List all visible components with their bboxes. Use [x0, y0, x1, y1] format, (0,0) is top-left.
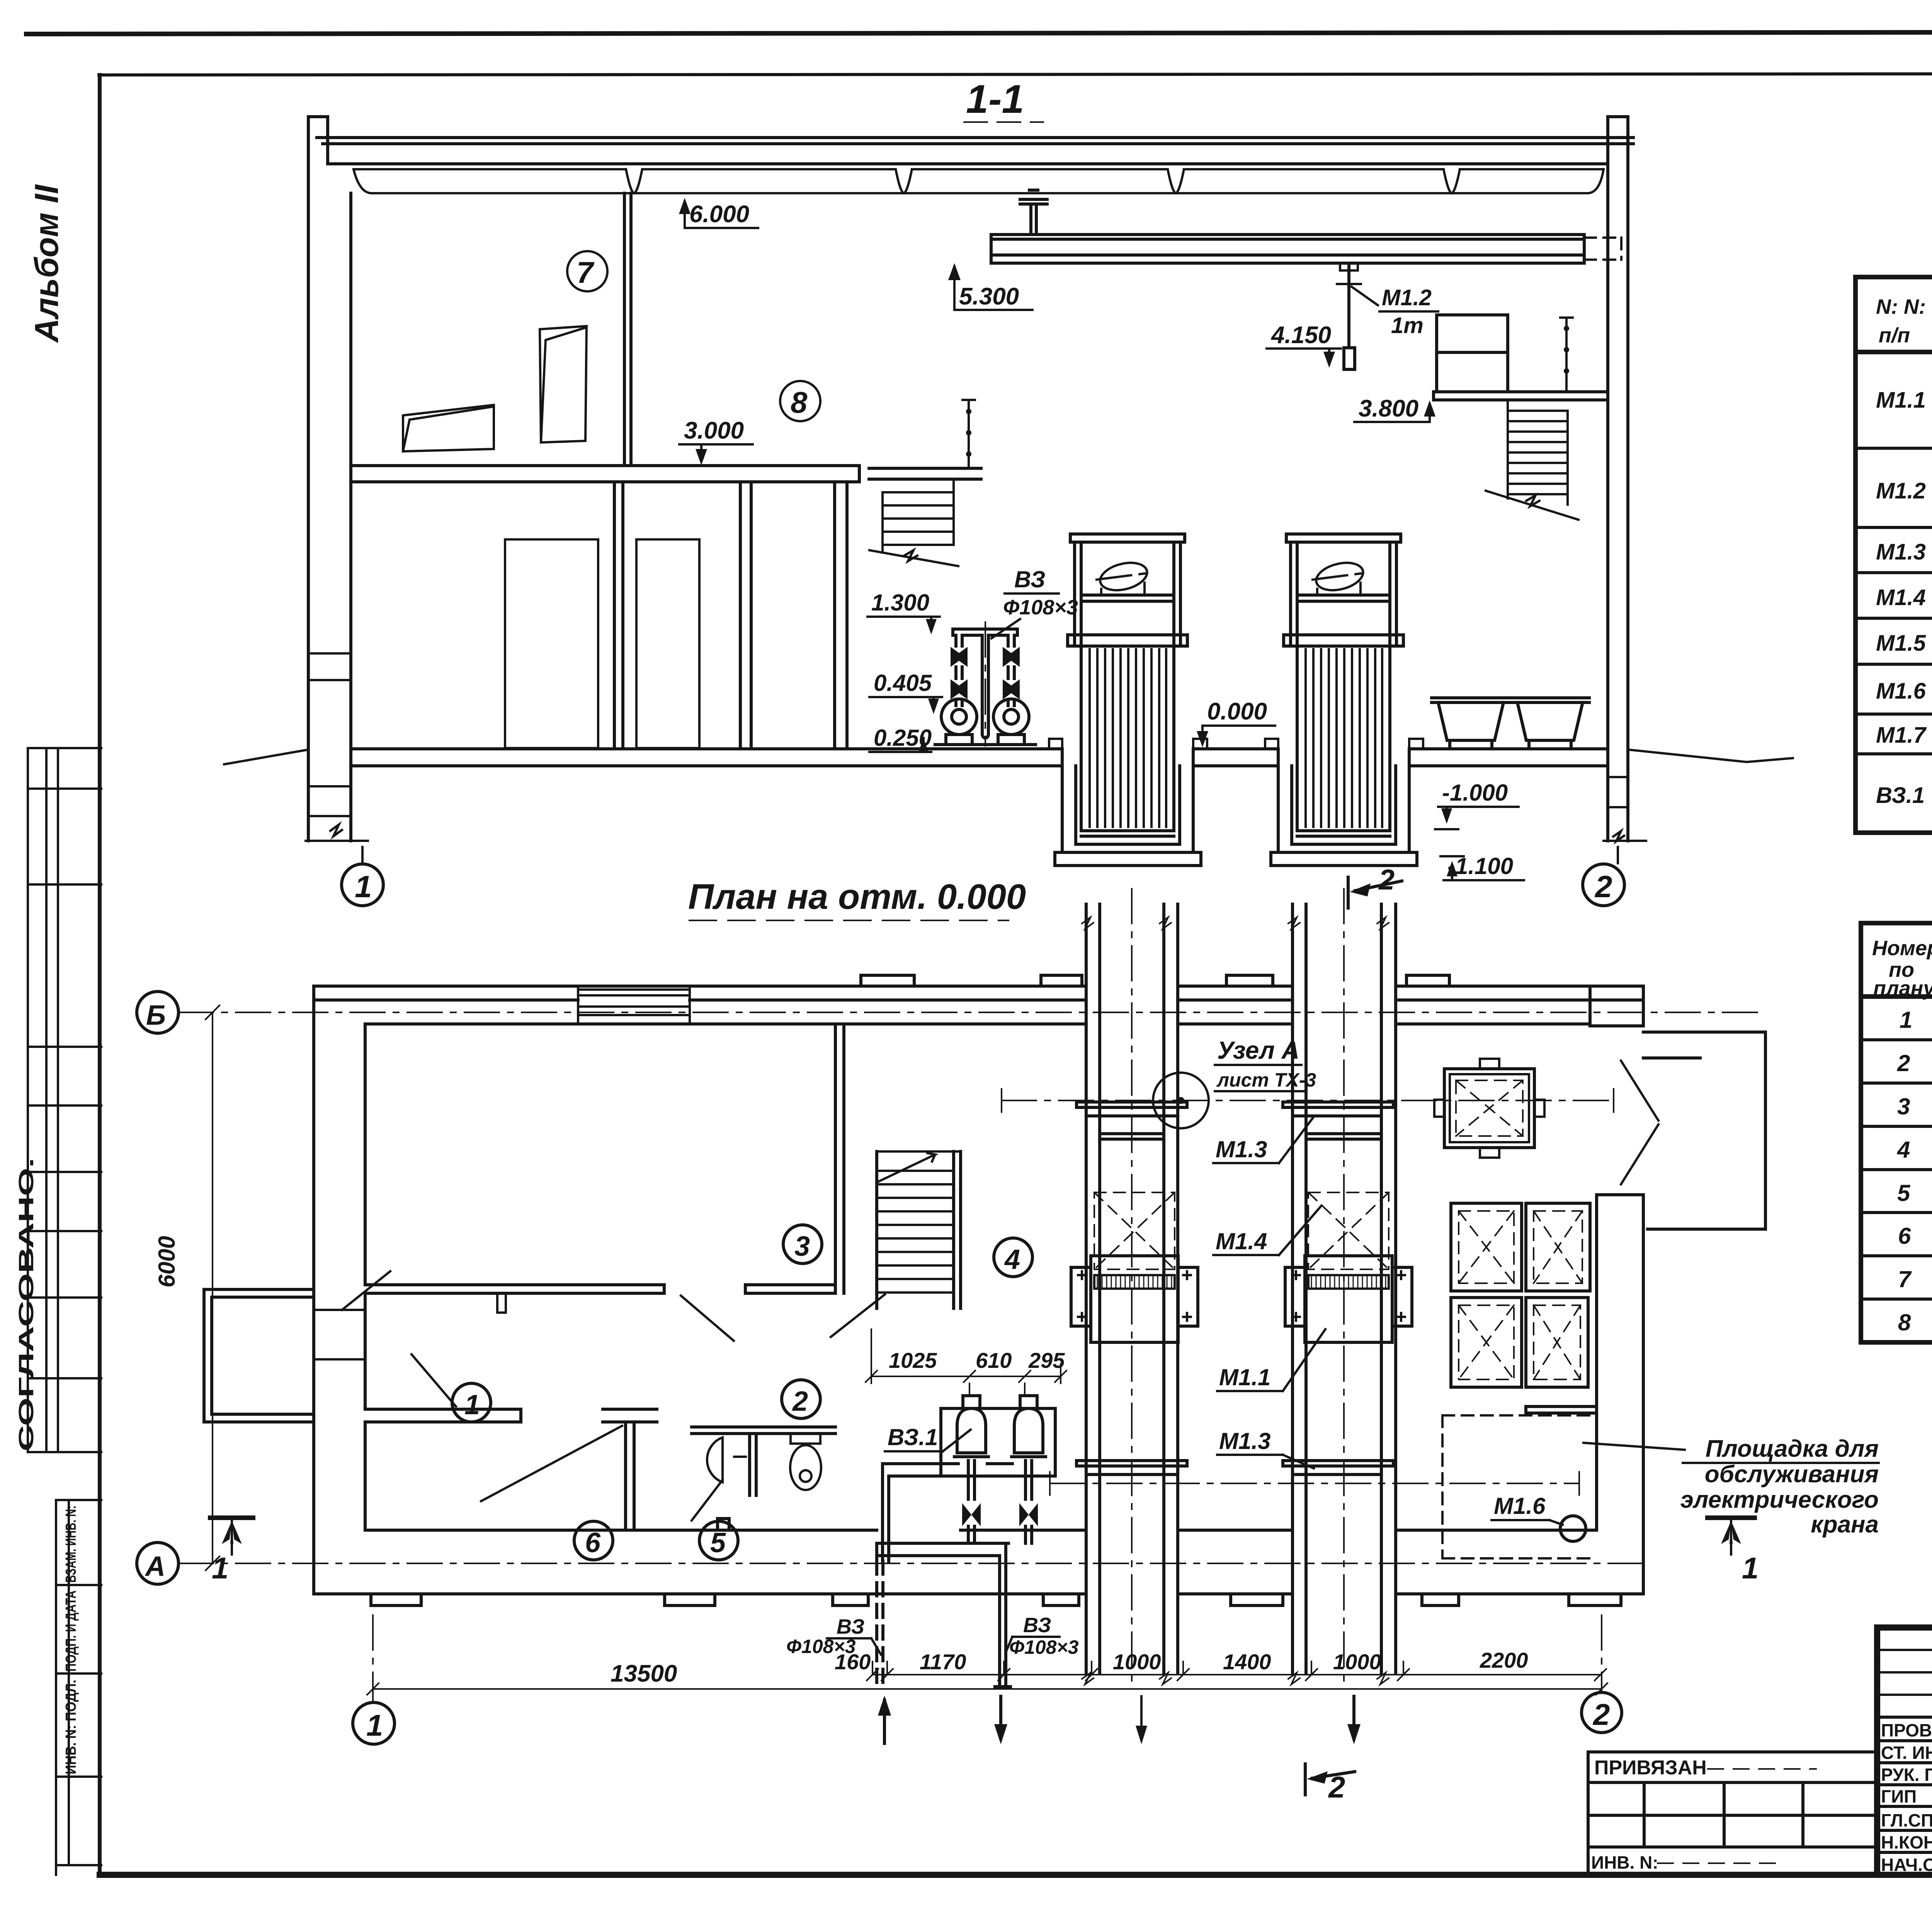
svg-text:электрического: электрического: [1680, 1486, 1879, 1513]
grate unit M1.1 left (section): [1049, 534, 1207, 986]
margin upper table: [28, 748, 101, 1452]
channel 1 walls (plan): [1082, 986, 1178, 1684]
svg-text:5.300: 5.300: [959, 283, 1019, 310]
svg-text:1000: 1000: [1333, 1650, 1381, 1674]
svg-text:М1.5: М1.5: [1876, 631, 1926, 656]
NE door leaves: [1621, 1061, 1658, 1184]
window band in top wall: [578, 986, 690, 1024]
ROOMS TABLE: [1861, 879, 1932, 1342]
level 1.300: [867, 590, 940, 634]
node A detail circle: [1153, 1073, 1209, 1128]
door leaf 1: [505, 539, 598, 748]
svg-text:8: 8: [1898, 1310, 1911, 1335]
inner frame top border: [99, 73, 1932, 75]
svg-text:М1.2: М1.2: [1382, 285, 1432, 310]
floor slab 0.000: [351, 749, 1608, 766]
svg-text:6000: 6000: [154, 1236, 180, 1287]
svg-text:1.300: 1.300: [871, 590, 929, 616]
beam suspension bracket: [1020, 190, 1047, 235]
rooms table grid: [1861, 923, 1932, 1342]
horizontal axis upper (through gates): [1002, 1089, 1614, 1112]
svg-text:лист ТХ-3: лист ТХ-3: [1216, 1069, 1316, 1091]
svg-text:ВЗ.1: ВЗ.1: [1876, 783, 1925, 808]
svg-text:295: 295: [1028, 1348, 1065, 1372]
pump group B3 (section): [342, 566, 1624, 920]
main title block frame: [1877, 1628, 1932, 1875]
PLAN: [204, 889, 1765, 1688]
roof slab: [317, 138, 1633, 164]
right wall footing: [1604, 777, 1646, 841]
M1.6 pump circle: [1560, 1516, 1586, 1541]
crane beam dashed continuation: [1584, 238, 1623, 260]
svg-text:А: А: [145, 1551, 165, 1582]
svg-text:13500: 13500: [611, 1660, 677, 1687]
svg-text:7: 7: [1898, 1266, 1912, 1292]
svg-text:2: 2: [792, 1386, 808, 1417]
handrail dotted: [1560, 318, 1573, 392]
center stair steps down-left: [869, 479, 958, 566]
pump header pipe: [883, 1464, 1012, 1561]
svg-text:М1.2: М1.2: [1876, 478, 1926, 503]
room circle 2: [782, 1380, 820, 1418]
outlet pipe solid: [995, 1543, 1010, 1687]
svg-text:1025: 1025: [889, 1348, 937, 1372]
level 0.250: [869, 725, 932, 752]
svg-text:2: 2: [1897, 1050, 1910, 1076]
svg-text:обслуживания: обслуживания: [1705, 1461, 1879, 1488]
svg-text:8: 8: [791, 385, 808, 419]
unit2 pit walls: [1271, 749, 1417, 866]
lower collector pipe: [877, 1543, 1009, 1561]
svg-text:ВЗ: ВЗ: [1014, 566, 1045, 592]
M1.4 container ch1 (plan): [1094, 1192, 1175, 1269]
svg-text:ПРИВЯЗАН: ПРИВЯЗАН: [1594, 1757, 1707, 1779]
svg-text:ПОДП. И ДАТА: ПОДП. И ДАТА: [63, 1590, 79, 1672]
svg-text:Номер: Номер: [1872, 937, 1932, 960]
svg-text:1: 1: [464, 1389, 480, 1420]
svg-text:ВЗ: ВЗ: [837, 1615, 864, 1638]
unit1 channel continuation to plan: [1082, 904, 1178, 986]
svg-text:1т: 1т: [1391, 313, 1423, 338]
unit2 channel continuation to plan: [1288, 904, 1396, 986]
svg-text:6: 6: [585, 1527, 601, 1558]
svg-text:Ф108×3: Ф108×3: [1009, 1636, 1079, 1658]
label Ploshchadka: [1583, 1435, 1879, 1538]
room circle 1: [452, 1383, 491, 1422]
svg-text:N: N:: N: N:: [1876, 295, 1926, 318]
svg-text:ИНВ. N:: ИНВ. N:: [1591, 1852, 1658, 1872]
svg-text:М1.6: М1.6: [1494, 1493, 1546, 1519]
unit1 motor: [1097, 558, 1151, 595]
svg-text:4: 4: [1897, 1137, 1910, 1163]
svg-text:ВЗ: ВЗ: [1023, 1614, 1051, 1637]
room1 door leaf: [412, 1354, 456, 1406]
unit2 screen body: [1297, 646, 1390, 836]
grid circle 2 (plan): [1582, 1615, 1622, 1733]
svg-text:крана: крана: [1811, 1511, 1879, 1538]
svg-text:2: 2: [1594, 869, 1612, 904]
svg-text:1: 1: [366, 1708, 383, 1742]
svg-text:План на отм. 0.000: План на отм. 0.000: [688, 877, 1026, 917]
svg-text:-1.000: -1.000: [1442, 780, 1508, 806]
svg-text:ВЗ.1: ВЗ.1: [888, 1424, 938, 1450]
label M1.4: [1213, 1206, 1321, 1255]
platform rail bar: [1526, 1406, 1597, 1413]
elevation 6.000: [679, 198, 758, 228]
wall between rooms 7 and 8: [624, 193, 631, 466]
svg-text:Площадка для: Площадка для: [1706, 1435, 1879, 1462]
svg-text:0.405: 0.405: [874, 670, 932, 696]
elevation 3.000: [679, 417, 753, 465]
label M1.3 bottom: [1217, 1428, 1314, 1468]
svg-text:Б: Б: [146, 1000, 166, 1031]
svg-text:5: 5: [710, 1527, 726, 1558]
section cut mark 2 bottom: [1305, 1764, 1355, 1804]
room3 door leaf: [681, 1296, 734, 1341]
mid horizontal wall: [365, 1409, 657, 1422]
svg-text:1: 1: [1900, 1007, 1912, 1033]
bottom main dim 13500: [367, 1660, 1607, 1695]
unit1 screen body: [1081, 646, 1174, 836]
room3 right wall: [835, 1024, 844, 1293]
right staircase steps: [1486, 400, 1578, 520]
svg-text:2200: 2200: [1480, 1648, 1528, 1672]
svg-text:3.000: 3.000: [684, 417, 744, 444]
right wall band: [1597, 1195, 1643, 1594]
sheet top edge line: [26, 32, 1932, 34]
left wall joints and footing: [306, 653, 368, 841]
svg-text:М1.3: М1.3: [1876, 539, 1926, 565]
pump pedestals and base: [933, 735, 1038, 749]
room3 wall stub: [497, 1293, 506, 1313]
corridor door leaf: [831, 1294, 885, 1337]
svg-text:6.000: 6.000: [689, 201, 749, 228]
svg-text:Ф108×3: Ф108×3: [786, 1636, 856, 1657]
grate machine M1.1 ch1 (plan): [1071, 1256, 1198, 1342]
svg-text:Ф108×3: Ф108×3: [1003, 596, 1078, 619]
M1.3 gate top ch1: [1077, 1102, 1187, 1139]
bottom outer wall: [314, 1530, 1643, 1594]
svg-text:1000: 1000: [1113, 1650, 1161, 1674]
right wall column: [1608, 117, 1628, 841]
PLAN annotations: [137, 992, 1879, 1804]
staff area horizontals: [1877, 1650, 1932, 1695]
label B3 F108x3 right: [1005, 1614, 1079, 1658]
channel centerlines: [1132, 889, 1344, 1688]
bottom dim chain small: [835, 1648, 1606, 1680]
room 7 circle: [567, 251, 607, 291]
bottom wall pilasters: [371, 1594, 1621, 1605]
svg-text:М1.4: М1.4: [1876, 585, 1926, 610]
grate machine M1.1 ch2 (plan): [1285, 1256, 1412, 1342]
second floor slab (vent chambers): [351, 466, 859, 482]
svg-text:НАЧ.ОТД.: НАЧ.ОТД.: [1881, 1855, 1932, 1875]
unit1 floor curbs: [1049, 739, 1207, 749]
svg-text:7: 7: [577, 255, 595, 289]
grid axis А: [137, 1543, 1643, 1584]
flow arrows below plan: [878, 1696, 1361, 1744]
svg-text:4: 4: [1004, 1244, 1020, 1275]
vertical dim 6000: [154, 1005, 219, 1570]
section view mark 1 right: [1708, 1518, 1759, 1585]
svg-text:ИНВ. N: ПОДЛ.: ИНВ. N: ПОДЛ.: [63, 1680, 79, 1774]
mezzanine box: [1437, 315, 1508, 392]
room circle 4: [994, 1238, 1032, 1277]
svg-text:Узел А: Узел А: [1217, 1036, 1299, 1064]
margin lower boxes: [56, 1500, 101, 1875]
grate unit M1.1 right (section): [1265, 534, 1423, 986]
unit2 motor: [1313, 558, 1367, 595]
left outer wall: [314, 986, 365, 1594]
staff role labels: [1881, 1720, 1932, 1875]
section cut mark 2 upper: [1348, 864, 1402, 908]
toilet: [790, 1434, 821, 1490]
M1.3 gate bottom ch2: [1283, 1461, 1393, 1475]
svg-text:п/п: п/п: [1879, 324, 1910, 347]
equipment table grid: [1855, 277, 1932, 833]
section view mark 1 left: [210, 1518, 253, 1585]
NE extension room: [1643, 1032, 1765, 1229]
svg-text:М1.7: М1.7: [1876, 723, 1927, 748]
room circle 6: [574, 1521, 613, 1560]
top wall pilasters: [861, 975, 1643, 1026]
louver window 1: [403, 405, 494, 451]
svg-text:СТ. ИНЖ.: СТ. ИНЖ.: [1881, 1743, 1932, 1763]
unit1 pit walls: [1055, 749, 1201, 866]
svg-text:6: 6: [1898, 1223, 1911, 1249]
elevation 3.800: [1354, 395, 1435, 422]
svg-text:2: 2: [1378, 864, 1395, 896]
svg-text:2: 2: [1592, 1697, 1610, 1731]
grid axis Б: [137, 992, 1762, 1033]
inner frame bottom border: [100, 1872, 1932, 1878]
valves on risers: [951, 647, 968, 667]
svg-text:ГЛ.СПЕЦ.: ГЛ.СПЕЦ.: [1881, 1810, 1932, 1830]
door leaf 2: [636, 539, 699, 748]
label B3 F108x3 left: [786, 1615, 881, 1657]
crane beam M1.2: [991, 235, 1584, 263]
room6 door leaf: [481, 1426, 622, 1501]
label M1.3 top: [1213, 1117, 1314, 1163]
sink: [707, 1437, 746, 1482]
dim chain 1025 610 295: [866, 1329, 1066, 1395]
waste containers M1.4 (section): [1432, 698, 1589, 748]
svg-text:2: 2: [1328, 1770, 1345, 1804]
plan stair: [877, 1151, 961, 1308]
svg-text:Н.КОНТР.: Н.КОНТР.: [1881, 1832, 1932, 1852]
svg-text:ГИП: ГИП: [1881, 1786, 1917, 1806]
svg-text:ВЗАМ. ИНВ. N:: ВЗАМ. ИНВ. N:: [63, 1505, 79, 1583]
left wall door opening: [314, 1271, 390, 1359]
svg-text:0.000: 0.000: [1207, 698, 1267, 725]
label Uzel A: [1215, 1036, 1316, 1091]
svg-text:М1.6: М1.6: [1876, 679, 1926, 704]
louver window 2: [540, 326, 587, 442]
sanuzel door leaf: [692, 1480, 723, 1520]
svg-text:М1.4: М1.4: [1216, 1228, 1267, 1254]
svg-text:ПРОВЕР.: ПРОВЕР.: [1881, 1720, 1932, 1740]
svg-text:СОГЛАСОВАНО.: СОГЛАСОВАНО.: [15, 1158, 38, 1451]
risers: [956, 635, 1014, 706]
plan title: [688, 877, 1026, 920]
room circle 5: [699, 1521, 738, 1560]
unit2 floor curbs: [1265, 739, 1423, 749]
B3.1 pump 1: [954, 1396, 988, 1499]
svg-text:4.150: 4.150: [1270, 322, 1331, 349]
center stair handrail: [963, 400, 975, 468]
outlet pipe dashed through wall: [877, 1561, 883, 1685]
service platform dashed: [1442, 1415, 1597, 1558]
ground line right: [1628, 750, 1793, 762]
top outer wall: [314, 986, 1643, 1024]
label B3 Ф108х3 (section): [992, 566, 1078, 638]
room3 bottom wall: [365, 1285, 835, 1293]
inner frame left border: [98, 75, 102, 1875]
mezzanine platform right: [1434, 392, 1608, 400]
B3.1 pump foundation: [941, 1408, 1055, 1476]
roof ribbed panels: [354, 169, 1604, 193]
SECTION 1-1: [224, 77, 1793, 841]
annex strip Privyazan: [1588, 1752, 1877, 1875]
MARGIN: [15, 184, 101, 1875]
svg-text:Альбом II: Альбом II: [28, 184, 65, 343]
svg-text:плану: плану: [1873, 977, 1932, 1000]
room6 partition vertical: [626, 1422, 634, 1530]
center stair platform: [869, 468, 981, 479]
TITLE BLOCK: [1588, 1628, 1932, 1932]
room 8 circle: [780, 381, 820, 421]
level 0.405: [869, 670, 942, 714]
grid circle 1 (plan): [353, 1615, 395, 1744]
hoist with hook: [1337, 263, 1361, 369]
label M1.6: [1492, 1493, 1563, 1525]
horizontal axis lower: [1050, 1472, 1579, 1495]
svg-text:М1.3: М1.3: [1216, 1136, 1267, 1162]
center drop pipe: [982, 635, 988, 738]
elevation 0.000: [1197, 698, 1275, 747]
svg-text:1: 1: [1742, 1551, 1759, 1585]
EQUIPMENT TABLE: [1855, 233, 1932, 833]
waste container squares (plan): [1451, 1203, 1590, 1387]
svg-text:1-1: 1-1: [966, 77, 1024, 122]
svg-text:610: 610: [976, 1348, 1012, 1372]
label M1.2 1т: [1352, 285, 1438, 338]
svg-text:3.800: 3.800: [1359, 395, 1418, 422]
B3.1 pump 2: [1012, 1396, 1046, 1499]
pump casings: [941, 699, 1029, 735]
header pipe: [953, 629, 1017, 635]
section grid circle 2: [1583, 847, 1624, 906]
svg-text:3: 3: [1897, 1094, 1910, 1119]
level -1.100: [1440, 853, 1524, 880]
room circle 3: [783, 1225, 822, 1264]
label B3.1: [885, 1424, 971, 1451]
svg-text:М1.1: М1.1: [1219, 1364, 1270, 1390]
left wall column: [308, 117, 351, 841]
svg-text:3: 3: [794, 1231, 810, 1262]
sanuzel walls: [692, 1427, 835, 1530]
M1.3 gate top ch2: [1283, 1102, 1393, 1139]
svg-text:5: 5: [1897, 1180, 1911, 1206]
svg-text:1400: 1400: [1223, 1650, 1271, 1674]
svg-text:РУК. ГР.: РУК. ГР.: [1881, 1765, 1932, 1785]
elevation 5.300: [948, 263, 1032, 310]
svg-text:1170: 1170: [920, 1650, 966, 1674]
elevation 4.150: [1267, 322, 1341, 368]
M1.5 trolley with container (plan): [1434, 1059, 1544, 1158]
svg-text:М1.1: М1.1: [1876, 388, 1926, 413]
svg-text:М1.3: М1.3: [1219, 1428, 1270, 1454]
level -1.000: [1435, 780, 1519, 829]
ground line left: [224, 750, 308, 764]
M1.3 gate bottom ch1: [1077, 1461, 1187, 1475]
M1.4 container ch2 (plan): [1308, 1192, 1389, 1269]
channel 2 walls (plan): [1288, 986, 1396, 1684]
ground floor partitions and doors: [614, 482, 847, 748]
pump valves (plan): [962, 1503, 981, 1526]
label M1.1: [1217, 1329, 1325, 1391]
section grid circle 1: [342, 847, 383, 906]
entrance porch: [204, 1289, 314, 1422]
svg-text:1: 1: [355, 869, 372, 904]
